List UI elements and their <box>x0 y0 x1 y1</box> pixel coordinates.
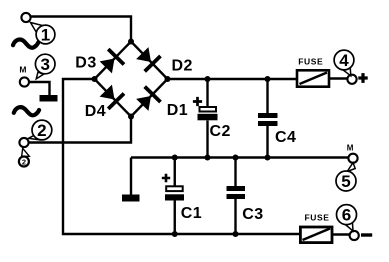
callout circle 6 <box>337 205 357 225</box>
junction C3 top on 0V rail <box>233 155 239 161</box>
callout circle 2 <box>32 120 52 140</box>
svg-text:D2: D2 <box>172 58 193 75</box>
wire C2 bottom lead <box>206 121 208 158</box>
svg-text:FUSE: FUSE <box>305 213 330 223</box>
callout pointer 4 <box>342 67 351 76</box>
junction C3 bottom on minus rail <box>233 231 239 237</box>
svg-text:C2: C2 <box>210 123 231 140</box>
callout circle 4 <box>334 50 354 70</box>
svg-text:D3: D3 <box>75 55 96 72</box>
capacitor C1 plate minus (solid) <box>165 194 184 200</box>
wire C1 top lead <box>174 158 176 187</box>
svg-text:6: 6 <box>342 206 351 225</box>
callout pointer 1 <box>31 23 44 33</box>
wire terminal1 to bridge top <box>31 17 132 42</box>
svg-text:3: 3 <box>40 55 49 74</box>
wire bridge left node to minus rail (down and right to fuse2) <box>63 79 300 234</box>
terminal 2 circle <box>19 138 28 147</box>
diode D3 <box>98 48 125 75</box>
junction C1 top on 0V rail <box>172 155 178 161</box>
wire plus rail bridge right node to fuse1 <box>168 78 297 80</box>
AC tilde upper <box>13 40 38 48</box>
diode D2 <box>134 45 161 72</box>
ground chassis bar (terminal3) <box>40 95 58 102</box>
terminal 1 circle <box>21 13 30 22</box>
svg-text:M: M <box>347 143 354 152</box>
capacitor C2 plate plus (hollow) <box>200 107 217 112</box>
wire C4 top lead <box>266 79 268 114</box>
fuse F2 body <box>300 227 332 243</box>
junction C2 bottom on 0V rail <box>205 155 211 161</box>
bridge rectifier diamond edges <box>95 42 168 117</box>
svg-text:4: 4 <box>339 51 349 70</box>
svg-text:C1: C1 <box>181 205 202 222</box>
svg-text:2: 2 <box>22 157 26 166</box>
capacitor C4 plate bottom <box>258 121 278 126</box>
fuse F1 diagonal <box>300 73 328 85</box>
wire 0V rail ground stub <box>130 158 132 196</box>
junction node bridge bottom <box>128 114 134 120</box>
wire C3 top lead <box>234 158 236 187</box>
capacitor C4 plate top <box>258 113 278 118</box>
wire fuse1 to terminal4 <box>330 77 347 79</box>
svg-text:D4: D4 <box>85 103 106 120</box>
wire C1 bottom lead <box>174 200 176 234</box>
terminal 4 circle <box>347 75 356 84</box>
fuse F1 body <box>297 70 329 86</box>
AC tilde lower <box>14 107 39 115</box>
minus sign terminal6 <box>361 233 372 236</box>
wire fuse2 to terminal6 <box>333 233 349 235</box>
capacitor C1 plate plus (hollow) <box>166 186 183 191</box>
svg-text:2: 2 <box>37 121 46 140</box>
capacitor C3 plate bottom <box>227 194 246 199</box>
svg-text:C4: C4 <box>275 129 296 146</box>
callout pointer 5 <box>347 163 355 172</box>
callout circle 5 <box>336 171 356 191</box>
junction node bridge right <box>165 76 171 82</box>
svg-text:D1: D1 <box>167 102 188 119</box>
junction C4 bottom on 0V rail <box>265 155 271 161</box>
junction C2 top on plus rail <box>205 76 211 82</box>
terminal 5 circle <box>348 154 357 163</box>
plus sign terminal4 <box>358 73 367 83</box>
fuse F2 diagonal <box>303 229 331 241</box>
wire 0V rail to terminal5 <box>131 156 348 158</box>
small callout circle 2b <box>19 157 29 167</box>
small callout pointer 2b <box>22 148 30 156</box>
svg-text:FUSE: FUSE <box>298 56 323 66</box>
capacitor C3 plate top <box>227 186 246 191</box>
callout pointer 2 <box>29 135 39 140</box>
callout circle 1 <box>36 25 55 44</box>
svg-text:M: M <box>19 64 26 74</box>
capacitor C2 plus sign <box>193 97 202 106</box>
diode D1 <box>134 85 161 112</box>
callout pointer 6 <box>344 222 353 231</box>
capacitor C1 plus sign <box>162 174 170 182</box>
junction node bridge top <box>128 39 134 45</box>
wire C4 bottom lead <box>266 126 268 158</box>
callout circle 3 <box>35 54 55 74</box>
wire terminal3 to chassis ground <box>29 82 49 96</box>
junction C1 bottom on minus rail <box>172 231 178 237</box>
capacitor C2 plate minus (solid) <box>198 114 218 121</box>
wire C2 top lead <box>206 79 208 107</box>
junction C4 top on plus rail <box>265 76 271 82</box>
svg-text:C3: C3 <box>242 206 263 223</box>
ground bar (0V rail) <box>122 195 140 202</box>
svg-text:1: 1 <box>41 26 50 45</box>
callout pointer 3 <box>36 72 43 79</box>
diode D4 <box>98 83 125 110</box>
terminal 6 circle <box>350 231 359 240</box>
wire bridge bottom node to terminal2 <box>29 117 131 143</box>
terminal 3 circle <box>20 77 29 86</box>
wire C3 bottom lead <box>234 199 236 235</box>
svg-text:5: 5 <box>341 172 350 191</box>
junction node bridge left <box>92 76 98 82</box>
